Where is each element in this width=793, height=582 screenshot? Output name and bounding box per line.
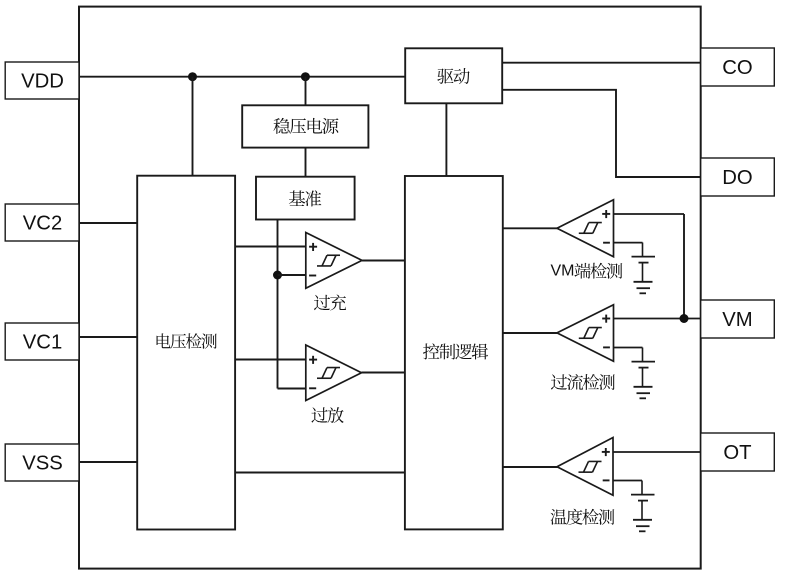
label 基准 [289, 190, 321, 206]
wire VM plus drop to VM node [683, 214, 685, 319]
wire voltage-detector to overdischarge plus input [235, 359, 306, 361]
wire control-logic to overcurrent comparator [503, 332, 558, 334]
IC outline box [79, 7, 701, 569]
svg-text:VM: VM [551, 263, 575, 280]
block regulator 稳压电源 [242, 105, 368, 147]
svg-text:OT: OT [723, 442, 751, 464]
pin OT [701, 433, 775, 471]
block voltage-detector 电压检测 [137, 176, 235, 530]
wire VC2 to voltage-detector [79, 222, 138, 224]
pin VC2 [5, 204, 79, 241]
pin VSS [5, 444, 79, 481]
wire reference to overdischarge minus input [278, 388, 307, 390]
block control-logic 控制逻辑 [405, 176, 503, 529]
junction VDD to voltage-detector [188, 72, 197, 81]
block U-driver 驱动 [405, 48, 502, 103]
wire overdischarge output to control-logic [362, 372, 405, 374]
pin VM [701, 300, 775, 338]
svg-text:VC2: VC2 [23, 212, 62, 234]
svg-text:VC1: VC1 [23, 331, 62, 353]
wire driver output to DO [502, 90, 701, 177]
comparator overcharge 过充 [306, 233, 362, 289]
wire control-logic to VM comparator [503, 227, 558, 229]
pin DO [701, 158, 775, 196]
pin VDD [5, 62, 79, 99]
wire driver output to CO [502, 62, 701, 64]
wire overcurrent minus input [613, 347, 642, 349]
svg-text:CO: CO [722, 57, 752, 79]
wire VDD drop to voltage-detector [192, 77, 194, 177]
label 过放 [311, 407, 343, 423]
junction VM node [680, 314, 689, 323]
wire VM comparator minus input [613, 242, 642, 244]
label 稳压电源 [273, 118, 338, 134]
wire reference to overcharge minus input [278, 274, 307, 276]
label 过流检测 [551, 374, 615, 390]
wire VSS to voltage-detector [79, 461, 138, 463]
wire voltage-detector to overcharge plus input [235, 246, 306, 248]
reference source and ground for VM comparator [632, 243, 656, 294]
comparator temperature-detect 温度检测 [557, 438, 613, 496]
label 过充 [314, 294, 346, 310]
wire driver to control-logic [445, 103, 447, 176]
wire VC1 to voltage-detector [79, 336, 138, 338]
block reference 基准 [256, 177, 355, 220]
label 电压检测 [157, 333, 217, 348]
wire temperature plus input to OT [613, 451, 701, 453]
pin CO [701, 48, 775, 86]
reference source and ground for temperature comparator [631, 481, 655, 532]
comparator overdischarge 过放 [306, 345, 362, 401]
junction reference to overcharge comparator [273, 271, 282, 280]
svg-text:VSS: VSS [22, 452, 63, 474]
wire regulator to reference [305, 147, 307, 177]
wire overcharge output to control-logic [362, 260, 405, 262]
wire VM comparator plus input [613, 213, 684, 215]
label 温度检测 [551, 509, 615, 525]
comparator VM-terminal-detect VM端检测 [557, 200, 614, 257]
comparator overcurrent-detect 过流检测 [557, 305, 614, 362]
wire temperature minus input [613, 480, 642, 482]
wire VM node to pin and overcurrent plus [613, 318, 700, 320]
wire reference drop [277, 219, 279, 388]
label 驱动 [437, 68, 469, 84]
pin VC1 [5, 323, 79, 360]
reference source and ground for overcurrent comparator [632, 348, 656, 399]
svg-text:DO: DO [722, 167, 752, 189]
label VM端检测 [551, 263, 623, 280]
wire VDD bus [79, 76, 405, 78]
wire voltage-detector to control-logic [235, 472, 405, 474]
label 控制逻辑 [423, 343, 488, 359]
svg-text:VDD: VDD [21, 70, 64, 92]
svg-text:VM: VM [722, 309, 752, 331]
wire control-logic to temperature comparator [503, 466, 558, 468]
junction VDD to regulator [301, 72, 310, 81]
wire VDD drop to regulator [305, 77, 307, 106]
